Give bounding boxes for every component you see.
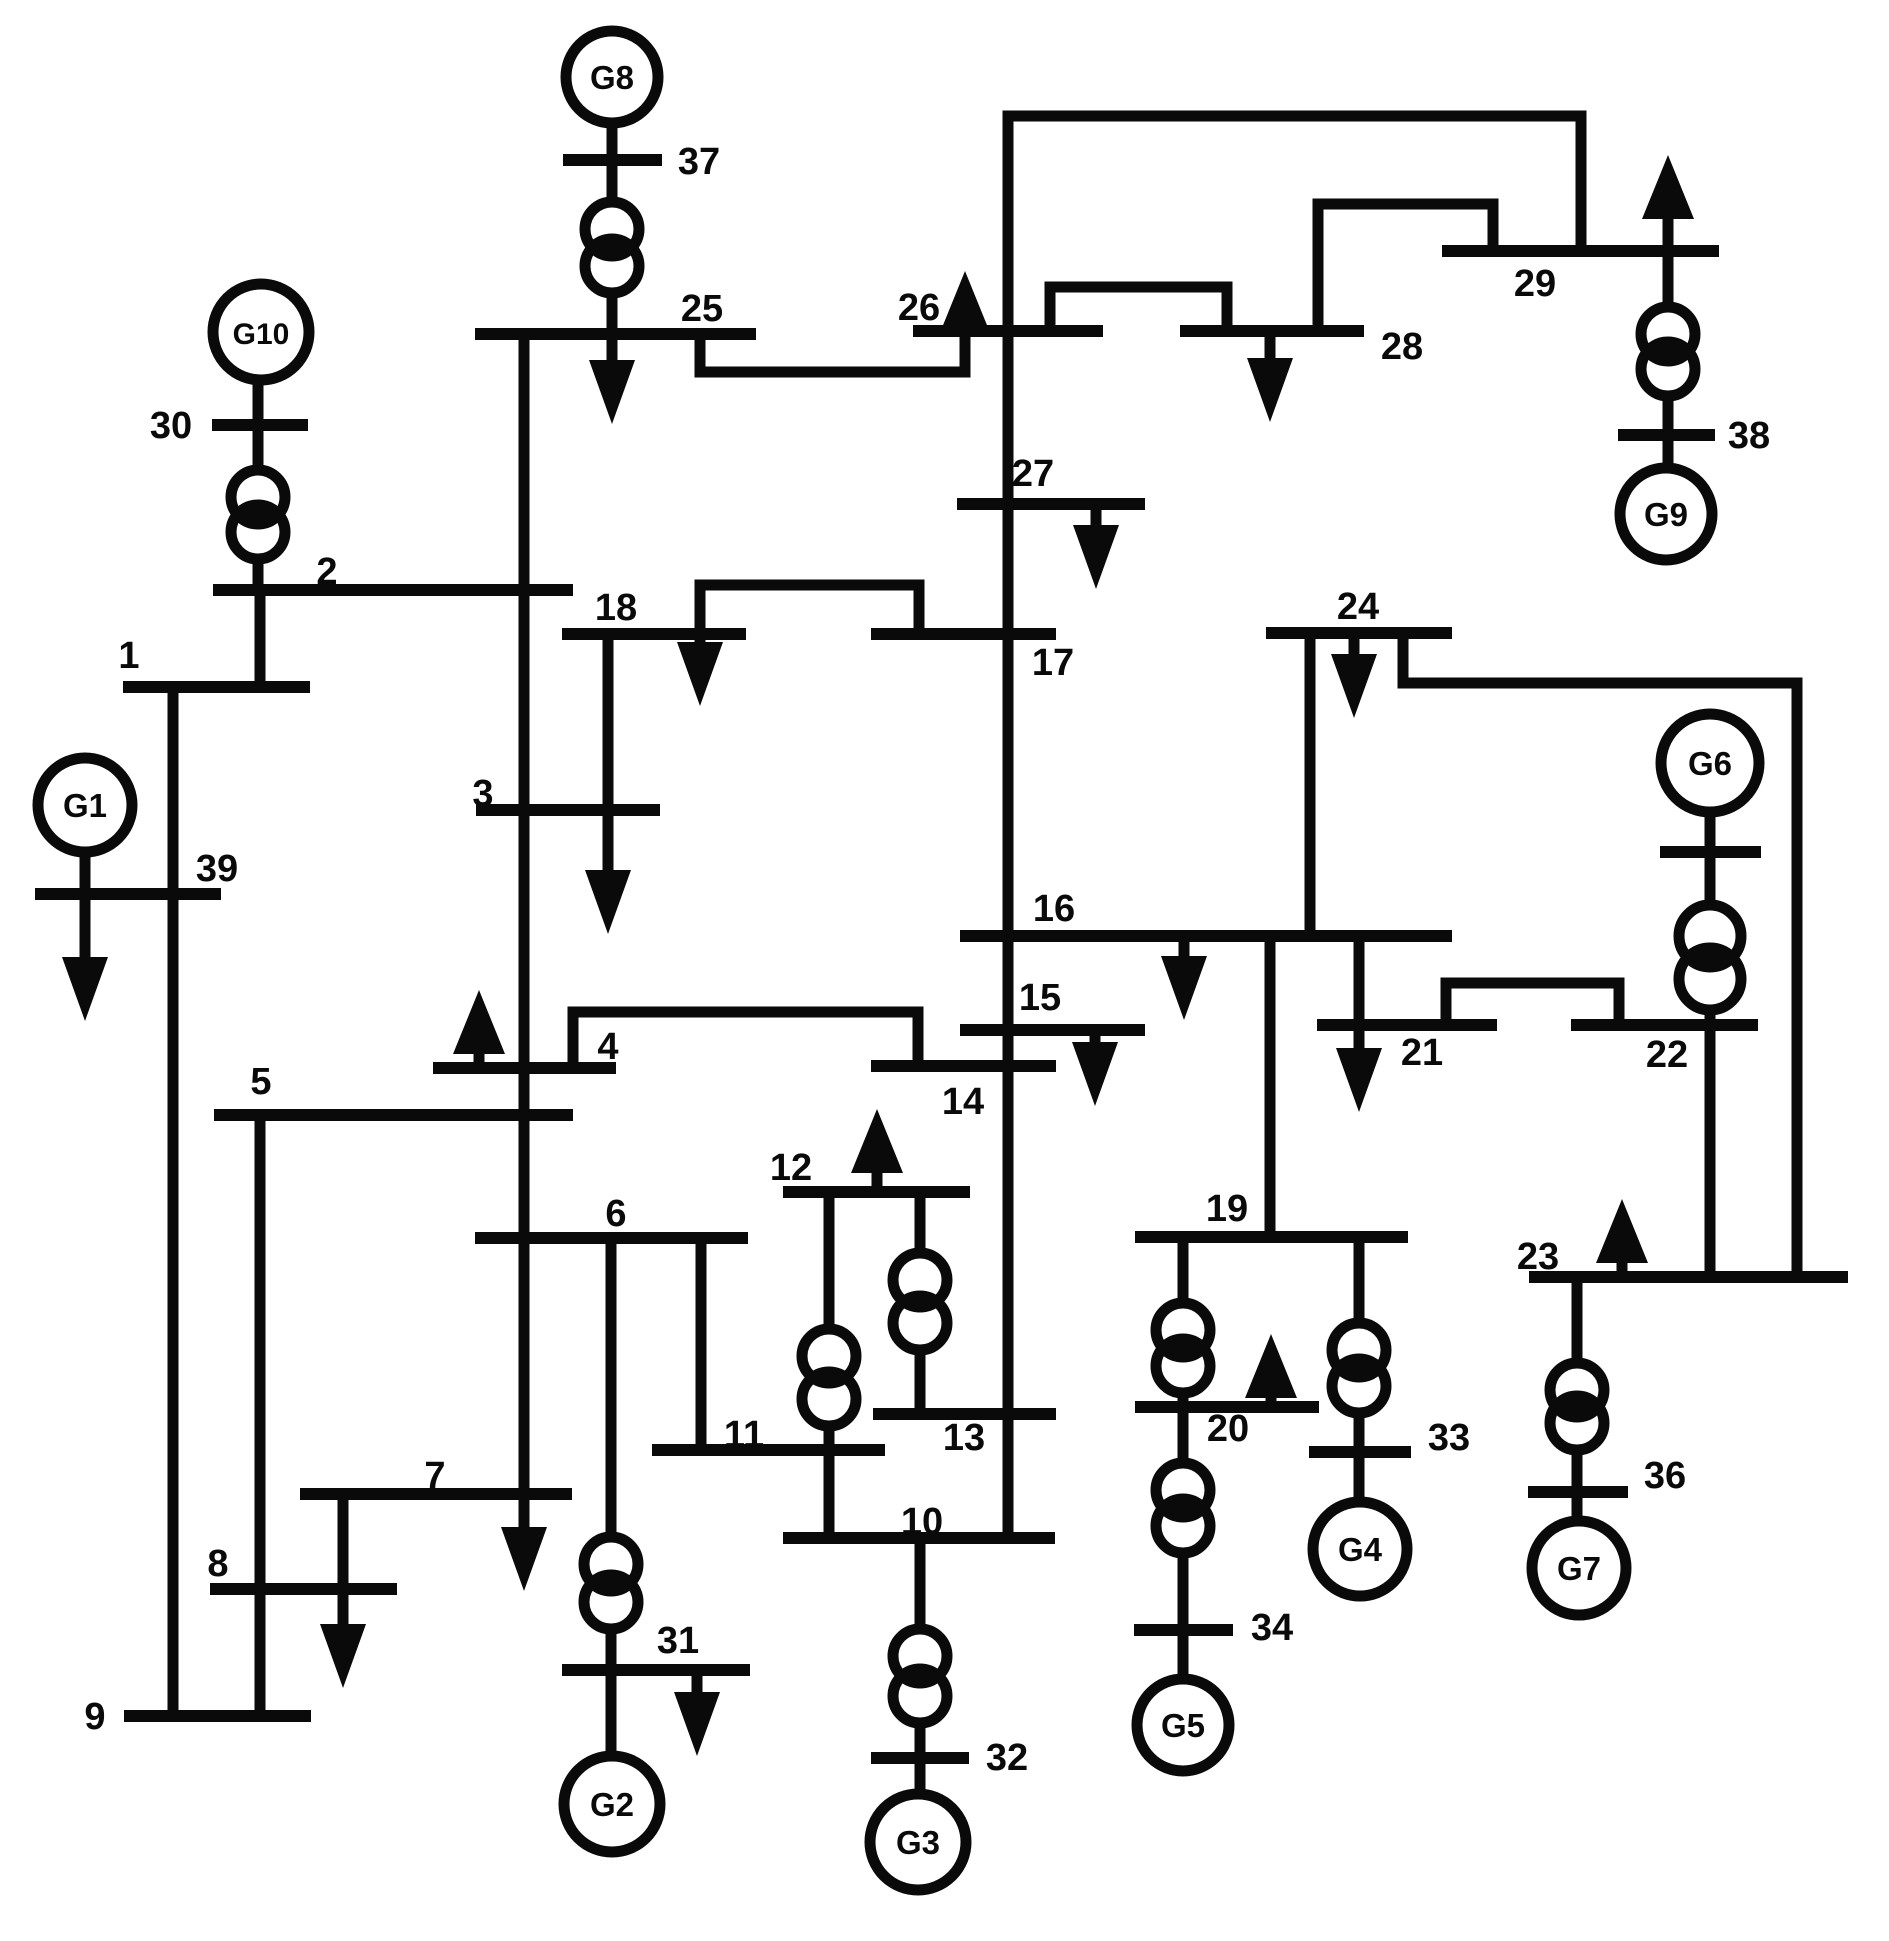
bus 11 bar	[652, 1444, 885, 1456]
bus 2 bar	[213, 584, 573, 596]
bus 13 bar	[873, 1408, 1056, 1420]
svg-text:9: 9	[84, 1696, 105, 1738]
bus 1 bar	[123, 681, 310, 693]
wire bus 22 - bus 23	[1705, 1025, 1716, 1277]
bus 12 bar	[783, 1186, 970, 1198]
svg-text:16: 16	[1033, 888, 1075, 930]
svg-text:19: 19	[1206, 1188, 1248, 1230]
svg-text:14: 14	[942, 1081, 984, 1123]
load arrow at bus 20	[1245, 1334, 1297, 1407]
svg-text:33: 33	[1428, 1417, 1470, 1459]
svg-text:37: 37	[678, 141, 720, 183]
bus 28 bar	[1180, 325, 1364, 337]
svg-text:27: 27	[1012, 453, 1054, 495]
load arrow at bus 39	[62, 894, 108, 1021]
transformer T 12-13	[893, 1253, 947, 1350]
svg-text:25: 25	[681, 288, 723, 330]
svg-text:36: 36	[1644, 1455, 1686, 1497]
bus 34 bar	[1134, 1624, 1233, 1636]
svg-text:G10: G10	[233, 318, 290, 351]
svg-text:29: 29	[1514, 263, 1556, 305]
transformer T 19-20	[1156, 1303, 1210, 1393]
transformer T G6/35-22	[1679, 905, 1741, 1010]
bus 19 bar	[1135, 1231, 1408, 1243]
wire bus 24 - bus 23	[1403, 633, 1797, 1277]
bus 10 bar	[783, 1532, 1055, 1544]
bus 9 bar	[124, 1710, 311, 1722]
bus 25 bar	[475, 328, 756, 340]
svg-text:G6: G6	[1688, 745, 1732, 782]
load arrow at bus 24	[1331, 633, 1377, 718]
wire bus 12 - bus 13	[915, 1192, 926, 1414]
svg-text:17: 17	[1032, 642, 1074, 684]
transformer T G8/37-25	[585, 202, 639, 293]
generator G3	[870, 1794, 966, 1890]
svg-text:3: 3	[472, 773, 493, 815]
wire G8 - bus 37 - bus 25	[607, 120, 618, 334]
svg-text:10: 10	[901, 1501, 943, 1543]
svg-text:6: 6	[605, 1193, 626, 1235]
generator G8	[566, 31, 658, 123]
bus 22 bar	[1571, 1019, 1758, 1031]
svg-text:G3: G3	[896, 1824, 940, 1861]
wire 26 - 27 - 17 - 16 - 15 - 14 - 13 - 10 vertical	[1003, 116, 1014, 1538]
bus 16 bar	[960, 930, 1452, 942]
load arrow at bus 31	[674, 1670, 720, 1756]
svg-text:G1: G1	[63, 787, 107, 824]
bus 5 bar	[214, 1109, 573, 1121]
svg-text:32: 32	[986, 1737, 1028, 1779]
bus 24 bar	[1266, 627, 1452, 639]
bus 14 bar	[871, 1060, 1056, 1072]
wire bus 20 - bus 34	[1178, 1407, 1189, 1630]
bus 39 bar	[35, 888, 221, 900]
bus 3 bar	[476, 804, 660, 816]
wire bus 5 - bus 8 - bus 9	[255, 1115, 266, 1716]
transformer T 20-34	[1156, 1463, 1210, 1553]
bus 18 bar	[562, 628, 746, 640]
generator G9	[1620, 468, 1712, 560]
generator G7	[1532, 1521, 1626, 1615]
bus 17 bar	[871, 628, 1056, 640]
wire bus 7 - bus 8	[338, 1494, 349, 1589]
svg-text:G7: G7	[1557, 1550, 1601, 1587]
generator G10	[213, 284, 309, 380]
wire bus 28 - bus 29 hop	[1318, 204, 1493, 331]
bus 30 bar	[212, 419, 308, 431]
bus 4 bar	[433, 1062, 616, 1074]
bus 21 bar	[1317, 1019, 1497, 1031]
wire bus 29 - bus 38 - G9	[1663, 251, 1674, 469]
load arrow at bus 26	[939, 271, 991, 335]
svg-text:34: 34	[1251, 1607, 1293, 1649]
wire bus 26 - bus 29 overhead line	[1008, 116, 1581, 251]
bus 36 bar	[1528, 1486, 1628, 1498]
svg-text:7: 7	[424, 1455, 445, 1497]
generator G4	[1313, 1502, 1407, 1596]
svg-text:5: 5	[250, 1061, 271, 1103]
svg-text:G4: G4	[1338, 1531, 1383, 1568]
wire bus 4 - bus 14	[573, 1012, 918, 1068]
wire G10 - bus 30 - bus 2	[253, 378, 264, 590]
wire bus 6 - bus 11	[696, 1238, 707, 1450]
wire bus 10 - bus 32 - G3	[915, 1538, 926, 1794]
wire bus 19 - bus 33	[1354, 1237, 1365, 1452]
wire bus 2 - bus 1	[255, 590, 266, 687]
svg-text:30: 30	[150, 405, 192, 447]
load arrow at bus 29	[1642, 155, 1694, 251]
transformer T 10-32/G3	[893, 1629, 947, 1723]
svg-text:8: 8	[207, 1543, 228, 1585]
load arrow at bus 8	[320, 1589, 366, 1688]
bus 26 bar	[913, 325, 1103, 337]
bus 6 bar	[475, 1232, 748, 1244]
generator G2	[564, 1756, 660, 1852]
wire bus 21 - bus 22 hop	[1446, 983, 1619, 1025]
wire bus 16 - bus 19	[1265, 936, 1276, 1237]
svg-text:23: 23	[1517, 1236, 1559, 1278]
svg-text:2: 2	[316, 551, 337, 593]
bus 37 bar	[563, 154, 662, 166]
load arrow at bus 3	[585, 810, 631, 934]
load arrow at bus 28	[1247, 331, 1293, 422]
bus 15 bar	[960, 1024, 1145, 1036]
svg-text:26: 26	[898, 287, 940, 329]
load arrow at bus 27	[1073, 504, 1119, 589]
load arrow at bus 23	[1596, 1199, 1648, 1277]
wire bus 12 - bus 11 - bus 10	[824, 1192, 835, 1538]
bus 7 bar	[300, 1488, 572, 1500]
svg-text:20: 20	[1207, 1408, 1249, 1450]
svg-text:18: 18	[595, 587, 637, 629]
transformer T 29-38/G9	[1641, 307, 1695, 396]
wire bus 19 - bus 20	[1178, 1237, 1189, 1407]
svg-text:11: 11	[724, 1414, 764, 1456]
bus 27 bar	[957, 498, 1145, 510]
wire G6 - bus 35 - bus 22	[1705, 810, 1716, 1025]
bus 29 bar	[1442, 245, 1719, 257]
wire bus 34 - G5	[1178, 1630, 1189, 1679]
svg-text:G9: G9	[1644, 496, 1688, 533]
generator G5	[1137, 1679, 1229, 1771]
svg-text:1: 1	[118, 635, 139, 677]
bus 32 bar	[871, 1752, 969, 1764]
wire bus 25 - 2 - 3 - 4 - 5 - 6 - 7 chain	[519, 334, 530, 1545]
transformer T G10/30-2	[231, 470, 285, 559]
bus 31 bar	[562, 1664, 750, 1676]
wire bus 16 - bus 21	[1354, 936, 1365, 1025]
wire bus 24 - bus 16	[1305, 633, 1316, 936]
bus 33 bar	[1309, 1446, 1411, 1458]
transformer T 12-11	[802, 1329, 856, 1426]
load arrow at bus 12	[851, 1109, 903, 1192]
load arrow at bus 4	[453, 990, 505, 1068]
bus 23 bar	[1529, 1271, 1848, 1283]
bus 20 bar	[1135, 1401, 1319, 1413]
svg-text:39: 39	[196, 848, 238, 890]
svg-text:G2: G2	[590, 1786, 634, 1823]
load arrow at bus 21	[1336, 1025, 1382, 1112]
svg-text:G8: G8	[590, 59, 634, 96]
svg-text:31: 31	[657, 1620, 699, 1662]
svg-text:24: 24	[1337, 586, 1379, 628]
wire bus 18 - bus 17 hop	[700, 585, 919, 634]
load arrow at bus 25	[589, 334, 635, 424]
bus 35 bar (generator G6 terminal)	[1660, 846, 1761, 858]
svg-text:21: 21	[1401, 1032, 1443, 1074]
wire bus 6 - bus 31 - G2	[606, 1238, 617, 1756]
transformer T 23-36	[1550, 1363, 1604, 1450]
svg-text:4: 4	[597, 1026, 618, 1068]
svg-text:38: 38	[1728, 415, 1770, 457]
load arrow at bus 7	[501, 1494, 547, 1591]
svg-text:12: 12	[770, 1147, 812, 1189]
svg-text:13: 13	[943, 1417, 985, 1459]
load arrow at bus 15	[1072, 1030, 1118, 1106]
load arrow at bus 16	[1161, 936, 1207, 1020]
svg-text:28: 28	[1381, 326, 1423, 368]
generator G1	[38, 758, 132, 852]
svg-text:22: 22	[1646, 1034, 1688, 1076]
load arrow at bus 18	[677, 634, 723, 706]
wire bus 33 - G4	[1354, 1452, 1365, 1502]
wire bus 23 - bus 36 - G7	[1572, 1277, 1583, 1521]
transformer T 6-31/G2	[584, 1537, 638, 1629]
bus 8 bar	[210, 1583, 397, 1595]
bus 38 bar	[1618, 429, 1715, 441]
wire bus 26 - bus 28 hop	[1050, 287, 1227, 331]
wire G1 - bus 39	[80, 850, 91, 894]
svg-text:G5: G5	[1161, 1707, 1205, 1744]
transformer T 19-33	[1332, 1323, 1386, 1413]
wire bus 1 - bus 39 - bus 9	[168, 687, 179, 1716]
wire bus 18 - bus 3	[603, 634, 614, 810]
generator G6	[1661, 714, 1759, 812]
wire bus 25 - bus 26	[700, 331, 965, 372]
svg-text:15: 15	[1019, 977, 1061, 1019]
